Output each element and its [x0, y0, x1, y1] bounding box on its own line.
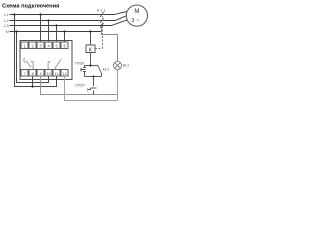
internal changeover contact right: throw hook T10 — [48, 62, 50, 70]
svg-text:Схема подключения: Схема подключения — [2, 4, 59, 10]
motor lead L3 — [112, 20, 127, 25]
relay coil K — [86, 45, 95, 53]
junction dot L1 left — [13, 13, 15, 15]
motor M 3~ circle — [126, 5, 147, 26]
motor lead L2 — [116, 16, 126, 21]
wire terminal 8 stub — [32, 76, 34, 87]
wire drop L1 left — [14, 14, 16, 87]
terminal 2 — [29, 42, 36, 49]
terminal 1 — [21, 42, 28, 49]
wire bus N — [10, 31, 103, 33]
device box — [20, 41, 72, 80]
svg-text:К 1.1: К 1.1 — [97, 8, 106, 12]
svg-text:ПУСК: ПУСК — [75, 62, 84, 66]
wire terminal 9 to bottom rail — [41, 76, 118, 95]
terminal 11 — [53, 69, 60, 76]
contact K1.1 pole L2 — [100, 18, 103, 23]
wire terminal 12 to lower rail — [65, 76, 118, 101]
svg-text:9: 9 — [40, 72, 42, 76]
wire parallel block bottom rail — [84, 76, 101, 78]
junction dot rail top — [89, 64, 91, 66]
svg-text:HL1: HL1 — [123, 64, 129, 68]
lamp HL1 — [113, 61, 121, 69]
terminal 10 — [45, 69, 52, 76]
junction dot block bottom — [92, 75, 94, 77]
internal contact right blade — [55, 59, 61, 67]
junction dot N T6 — [63, 30, 65, 32]
terminal 7 — [21, 69, 28, 76]
terminal 9 — [37, 69, 44, 76]
contact K1.1 pole L3 — [100, 23, 103, 28]
button ПУСК NO symbol — [81, 66, 86, 77]
junction dot L2 T4 — [47, 19, 49, 21]
terminal 12 — [61, 69, 68, 76]
svg-text:СТОП: СТОП — [75, 84, 85, 88]
svg-text:11: 11 — [55, 72, 59, 76]
wire bus L1 — [10, 14, 116, 16]
wire drop L3 to terminal 5 — [56, 25, 58, 42]
svg-text:L1: L1 — [4, 12, 9, 17]
wire N-drop to terminal 10 — [17, 76, 49, 83]
svg-text:7: 7 — [24, 72, 26, 76]
terminal 8 — [29, 69, 36, 76]
svg-text:L3: L3 — [4, 23, 9, 28]
wire coil bottom to rail — [90, 53, 92, 66]
svg-text:3 ~: 3 ~ — [131, 18, 140, 24]
contact K1.1 pole L1 — [100, 12, 103, 17]
junction dot N left — [15, 30, 17, 32]
wire drop N to terminal 6 — [64, 31, 66, 42]
wire lamp bottom — [117, 70, 119, 101]
svg-text:12: 12 — [63, 72, 67, 76]
terminal numbers 1-6 — [23, 43, 66, 48]
internal contact left throw hook to T8 — [31, 62, 33, 70]
svg-text:M: M — [134, 8, 139, 15]
terminal 6 — [61, 42, 68, 49]
internal contact left blade — [26, 61, 32, 68]
wire bus L3 — [10, 25, 113, 27]
junction dot coil N — [89, 30, 91, 32]
wire parallel block top rail — [84, 65, 98, 67]
wire drop L2 to terminal 4 — [48, 20, 50, 42]
svg-text:8: 8 — [32, 72, 34, 76]
internal changeover contact left: arc — [24, 58, 25, 63]
internal contact right pole stub — [54, 68, 56, 70]
dashed mechanical link K1.1 to coil K — [95, 12, 102, 48]
wire drop N left — [16, 31, 18, 83]
terminal 5 — [53, 42, 60, 49]
junction dot T8 — [31, 85, 33, 87]
junction dot L3 T5 — [55, 24, 57, 26]
terminal 4 — [45, 42, 52, 49]
wire block to СТОП — [93, 77, 95, 87]
wire N step to lamp HL1 — [102, 26, 118, 62]
junction dot L3 tap — [100, 24, 102, 26]
svg-text:N: N — [6, 29, 9, 34]
terminal numbers 7-12 — [24, 72, 67, 76]
motor lead L1 — [115, 12, 127, 15]
wire coil top to N — [90, 31, 92, 45]
wire drop L1 to terminal 3 — [40, 14, 42, 42]
wire L1-drop to terminal 11 — [15, 76, 57, 87]
contact K1.2 — [97, 65, 99, 68]
wire bus L2 — [10, 20, 117, 22]
terminal 3 — [37, 42, 44, 49]
junction dot L1 T3 — [39, 13, 41, 15]
svg-text:L2: L2 — [4, 18, 9, 23]
button СТОП NC symbol — [88, 88, 97, 95]
svg-text:К1.2: К1.2 — [103, 68, 110, 72]
svg-text:10: 10 — [47, 72, 51, 76]
